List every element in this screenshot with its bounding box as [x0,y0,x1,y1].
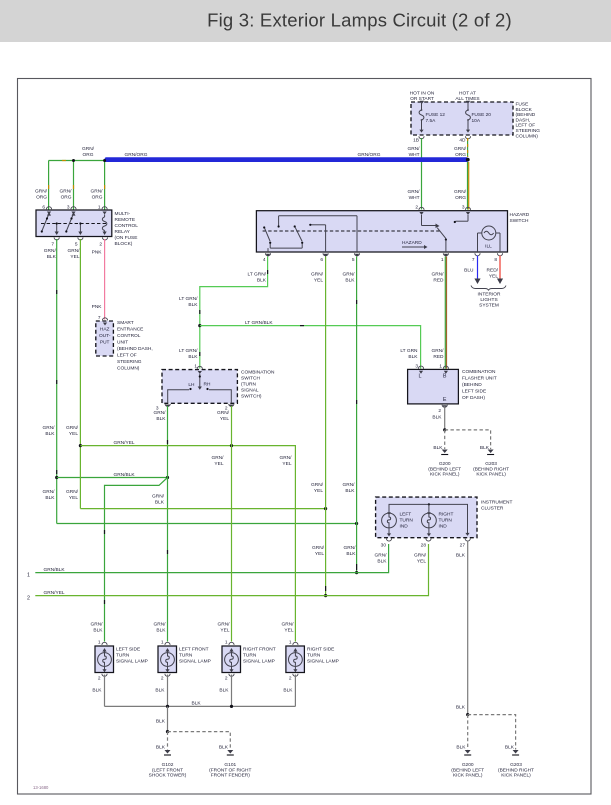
wire GRN/BLK relay pin 7 down [44,239,57,524]
wire GRN/YEL strap to hazard pin 6 column [80,508,325,510]
svg-text:RELAY: RELAY [115,229,131,235]
label GRN/BLK left front lamp feed [154,622,167,634]
svg-text:GRN/YEL: GRN/YEL [44,590,65,596]
lamp LEFT FRONT TURN SIGNAL LAMP [158,640,211,682]
svg-text:BLOCK: BLOCK [516,107,533,113]
svg-text:GRN/: GRN/ [432,272,445,278]
node HOT IN ON OR START [410,91,435,104]
svg-text:BLK: BLK [345,488,355,494]
svg-text:GRN/: GRN/ [454,146,467,152]
instrument cluster internal rail [389,503,470,536]
svg-text:KICK PANEL): KICK PANEL) [476,472,506,478]
hazard switch pin 3 [462,205,471,216]
hazard switch box [256,211,529,252]
fuse FUSE 20 10A [466,103,492,133]
svg-text:SIGNAL LAMP: SIGNAL LAMP [307,658,339,664]
svg-text:GRN/: GRN/ [154,410,167,416]
svg-text:WHT: WHT [409,152,420,158]
relay pin 1 [98,205,107,215]
wire GRN/BLK strap to hazard pin 5 column [57,523,357,525]
hazard switch pin 4 [263,253,271,263]
junction LT GRN/BLK [198,324,201,327]
wire GRN/ORG bus junction to hazard switch pin 3 [454,162,469,210]
junction GRN/YEL at relay column [79,444,82,447]
wire BLK dashed to ground G200 (upper) [433,430,444,451]
junction BLK flasher ground split [443,428,446,431]
svg-text:FUSE 12: FUSE 12 [426,112,446,118]
junction GRN/BLK rail 1 [355,571,358,574]
svg-text:BLK: BLK [377,559,387,565]
junction BLK lamp ground split [166,730,169,733]
svg-text:STEERING: STEERING [117,359,142,365]
svg-text:YEL: YEL [282,461,291,467]
relay pin 2 [99,237,107,247]
svg-text:GRN/: GRN/ [66,489,79,495]
svg-text:HAZARD: HAZARD [510,212,530,218]
svg-text:ORG: ORG [61,195,72,201]
svg-text:MULTI-: MULTI- [115,211,131,217]
svg-text:GRN/: GRN/ [454,189,467,195]
combination flasher unit (behind left side of dash) [408,369,497,404]
junction GRN/YEL at hazard pin 6 column [324,507,327,510]
wire LT GRN/BLK hazard pin 4 to combination switch pin 1 [179,257,268,369]
svg-text:ORG: ORG [455,152,466,158]
svg-text:(BEHIND LEFT: (BEHIND LEFT [428,466,461,472]
svg-text:2: 2 [289,676,292,682]
svg-text:5: 5 [352,257,355,263]
junction BLK cluster ground split [466,713,469,716]
svg-text:7: 7 [472,257,475,263]
lamp LEFT SIDE TURN SIGNAL LAMP [95,640,148,682]
wire GRN/YEL rail 2 to instrument cluster pin 28 [27,544,429,602]
svg-text:Fig 3: Exterior Lamps Circuit: Fig 3: Exterior Lamps Circuit (2 of 2) [207,10,512,31]
svg-text:INSTRUMENT: INSTRUMENT [481,500,513,506]
svg-text:UNIT: UNIT [117,340,128,346]
svg-text:1: 1 [98,640,101,646]
hazard switch pin 1 [441,253,449,263]
wire GRN/YEL combination switch pin 2 to right front lamp [212,406,232,642]
svg-text:ORG: ORG [92,195,103,201]
svg-text:ILL: ILL [485,244,492,250]
svg-text:PNK: PNK [92,250,103,256]
svg-text:SIGNAL LAMP: SIGNAL LAMP [179,658,211,664]
svg-text:4: 4 [263,257,266,263]
svg-text:SYSTEM: SYSTEM [479,303,499,309]
svg-text:YEL: YEL [314,278,323,284]
wire GRN/ORG power bus (thick) [105,152,470,162]
svg-text:GRN/ORG: GRN/ORG [358,152,381,158]
cluster pin 27 [460,539,471,549]
svg-text:5: 5 [75,242,78,248]
wire BLK dashed to ground G203 (upper) [445,430,491,451]
svg-text:(BEHIND LEFT: (BEHIND LEFT [451,767,484,773]
svg-text:HOT AT: HOT AT [459,91,476,97]
svg-text:BLK: BLK [45,495,55,501]
svg-text:1: 1 [225,640,228,646]
svg-text:GRN/: GRN/ [375,553,388,559]
wire BLK left side lamp to ground bus [92,675,104,707]
relay pin 3 [67,205,76,215]
combination switch pin 2 [225,404,234,412]
svg-text:BLK: BLK [155,500,165,506]
svg-text:GRN/: GRN/ [91,189,104,195]
hazard switch pin 2 [415,205,424,216]
svg-text:GRN/: GRN/ [91,622,104,628]
svg-text:1: 1 [439,364,442,370]
svg-text:2: 2 [438,408,441,414]
svg-text:GRN/: GRN/ [282,622,295,628]
lamp RIGHT SIDE TURN SIGNAL LAMP [286,640,339,682]
junction GRN/YEL at combo pin 2 column [230,444,233,447]
label GRN/YEL right side lamp feed [282,622,295,634]
svg-text:(BEHIND RIGHT: (BEHIND RIGHT [473,466,509,472]
svg-text:SIGNAL LAMP: SIGNAL LAMP [243,658,275,664]
wire BLK left front lamp to ground bus [155,675,167,707]
svg-text:GRN/: GRN/ [217,410,230,416]
svg-text:DASH,: DASH, [516,117,531,123]
lamp RIGHT FRONT TURN SIGNAL LAMP [222,640,276,682]
svg-text:ENTRANCE: ENTRANCE [117,327,143,333]
wire BLK dashed to ground G102 [156,732,168,751]
svg-text:(ON FUSE: (ON FUSE [115,235,138,241]
svg-text:4D: 4D [459,138,466,144]
ground G200 (behind left kick panel) lower [451,750,484,779]
svg-text:YEL: YEL [315,551,324,557]
label GRN/YEL right front lamp feed [218,622,231,634]
svg-text:(BEHIND: (BEHIND [516,112,536,118]
svg-text:B: B [443,374,447,380]
junction GRN/BLK at relay column [55,476,58,479]
svg-text:2: 2 [161,676,164,682]
instrument cluster box [376,497,513,538]
svg-text:GRN/: GRN/ [218,622,231,628]
svg-text:GRN/: GRN/ [43,489,56,495]
relay MULTI-REMOTE CONTROL RELAY (on fuse block) [36,210,138,247]
label GRN/BLK left side lamp feed [91,622,104,634]
svg-text:KICK PANEL): KICK PANEL) [453,773,483,779]
svg-text:10A: 10A [472,118,481,124]
hazard switch internal wiring left [263,216,357,252]
svg-text:BLK: BLK [155,688,165,694]
wire GRN/RED hazard pin 1 to flasher pin B [432,257,447,369]
svg-text:GRN/: GRN/ [68,248,81,254]
wire BLK flasher pin 2 to ground junction [432,406,444,430]
svg-text:CLUSTER: CLUSTER [481,506,504,512]
svg-text:RED: RED [433,354,444,360]
svg-text:GRN/: GRN/ [432,348,445,354]
wire GRN/YEL strap to right side lamp column [80,440,295,641]
svg-text:G200: G200 [462,762,474,768]
svg-text:BLK: BLK [432,415,442,421]
svg-text:6: 6 [320,257,323,263]
svg-text:BLK: BLK [433,445,443,451]
svg-text:(BEHIND RIGHT: (BEHIND RIGHT [498,767,534,773]
svg-text:BLK: BLK [45,431,55,437]
wire PNK relay pin 2 to smart entrance control unit [92,239,105,320]
svg-text:1: 1 [441,257,444,263]
svg-text:RED/: RED/ [487,268,499,274]
wire GRN/ORG fuse 20 to bus junction [454,138,468,158]
svg-text:G203: G203 [485,461,497,467]
svg-text:SWITCH: SWITCH [510,218,529,224]
svg-text:TURN: TURN [307,653,321,659]
svg-text:GRN/: GRN/ [43,425,56,431]
svg-text:TURN: TURN [243,653,257,659]
svg-text:BLOCK): BLOCK) [115,241,133,247]
svg-text:YEL: YEL [69,431,78,437]
svg-text:BLK: BLK [192,701,202,707]
wire GRN/BLK branch to left side lamp [105,478,168,642]
svg-text:GRN/: GRN/ [152,494,165,500]
svg-text:3: 3 [415,364,418,370]
svg-text:INTERIOR: INTERIOR [478,292,501,298]
relay pin 6 [42,205,51,215]
svg-text:ORG: ORG [36,195,47,201]
hazard switch pin 6 [320,253,328,263]
svg-text:E: E [443,397,447,403]
svg-text:PNK: PNK [92,304,103,310]
svg-text:GRN/: GRN/ [154,622,167,628]
fuse block (behind dash, left of steering column) [411,102,540,140]
svg-text:G203: G203 [510,762,522,768]
junction GRN/BLK at hazard pin 5 column [355,522,358,525]
svg-text:HAZARD: HAZARD [402,240,422,246]
svg-text:COMBINATION: COMBINATION [462,369,496,375]
svg-text:COLUMN): COLUMN) [117,366,140,372]
svg-text:6: 6 [42,205,45,211]
junction GRN/BLK at combo pin 3 column [166,476,169,479]
svg-text:GRN/: GRN/ [82,146,95,152]
wire GRN/BLK cross strap to combination switch pin 3 column [57,472,168,478]
svg-text:BLK: BLK [346,551,356,557]
svg-text:LEFT: LEFT [400,512,412,518]
svg-text:TURN: TURN [439,518,453,524]
flasher pin 2 [438,405,447,414]
svg-text:YEL: YEL [69,495,78,501]
svg-text:GRN/: GRN/ [408,189,421,195]
svg-text:(BEHIND DASH,: (BEHIND DASH, [117,346,153,352]
svg-text:REMOTE: REMOTE [115,217,136,223]
svg-text:FUSE 20: FUSE 20 [472,112,492,118]
svg-text:BLK: BLK [156,416,166,422]
svg-text:LEFT OF: LEFT OF [516,123,536,129]
svg-text:GRN/: GRN/ [311,272,324,278]
svg-text:YEL: YEL [489,274,498,280]
wire BLK right side lamp to ground bus [283,675,295,707]
svg-text:GRN/: GRN/ [280,455,293,461]
hazard switch pin 8 [494,253,502,263]
svg-text:28: 28 [421,543,427,549]
wire BLU to interior lights system [464,256,480,285]
svg-text:WHT: WHT [409,195,420,201]
combination switch pin 1 [194,364,202,375]
wire BLK dashed to ground G200 (lower) [456,715,467,751]
svg-text:30: 30 [381,543,387,549]
svg-text:OF DASH): OF DASH) [462,395,485,401]
svg-text:IND: IND [439,524,448,530]
svg-text:2: 2 [99,242,102,248]
svg-text:COMBINATION: COMBINATION [241,370,275,376]
svg-text:GRN/BLK: GRN/BLK [44,567,66,573]
svg-text:HOT IN ON: HOT IN ON [410,91,435,97]
svg-text:BLK: BLK [47,254,57,260]
svg-text:1B: 1B [413,138,419,144]
svg-text:SHOCK TOWER): SHOCK TOWER) [149,773,187,779]
relay pin 5 [75,237,83,247]
wire BLK cluster pin 27 down [456,541,468,715]
svg-text:BLK: BLK [505,745,515,751]
combination switch internal contacts LH RH [168,374,232,403]
svg-text:LT GRN: LT GRN [400,348,418,354]
cluster pin 28 [421,539,431,549]
svg-text:1: 1 [98,205,101,211]
svg-text:RED: RED [433,278,444,284]
svg-text:7.5A: 7.5A [426,118,437,124]
svg-text:BLK: BLK [93,628,103,634]
svg-text:PUT: PUT [100,340,110,346]
ground G101 (front of right front fender) [209,750,251,779]
svg-text:GRN/: GRN/ [343,272,356,278]
svg-text:LT GRN/BLK: LT GRN/BLK [245,320,273,326]
relay switch contacts [41,212,83,235]
svg-text:TURN: TURN [179,653,193,659]
svg-text:BLK: BLK [92,688,102,694]
wire GRN/BLK combination switch pin 3 to left front lamp [154,406,168,642]
hazard switch pin 7 [472,253,480,263]
pin 1B [413,136,424,143]
wire BLK lamp ground bus [105,701,296,709]
combination switch pin 3 [156,404,170,412]
svg-text:LEFT SIDE: LEFT SIDE [116,647,140,653]
svg-text:1: 1 [161,640,164,646]
svg-text:BLK: BLK [257,278,267,284]
svg-text:COLUMN): COLUMN) [516,133,539,139]
wire RED/YEL to interior lights system [487,256,504,285]
svg-text:LIGHTS: LIGHTS [480,297,497,303]
svg-text:(TURN: (TURN [241,382,256,388]
svg-text:GRN/: GRN/ [344,545,357,551]
wire BLK right front lamp to ground bus [219,675,231,707]
svg-text:IND: IND [400,524,409,530]
svg-text:G102: G102 [162,762,174,768]
lamp ILL in hazard switch [478,226,501,252]
svg-text:LT GRN/: LT GRN/ [179,296,198,302]
svg-text:YEL: YEL [70,254,79,260]
svg-text:FRONT FENDER): FRONT FENDER) [211,773,250,779]
svg-text:GRN/: GRN/ [414,553,427,559]
svg-text:BLK: BLK [456,705,466,711]
svg-text:SWITCH): SWITCH) [241,394,262,400]
svg-text:BLK: BLK [188,354,198,360]
wire GRN/YEL hazard pin 6 down to rail 2 [311,257,326,596]
svg-text:3: 3 [67,205,70,211]
svg-text:GRN/: GRN/ [66,425,79,431]
svg-text:YEL: YEL [417,559,426,565]
svg-text:FLASHER UNIT: FLASHER UNIT [462,376,497,382]
hazard switch internal wiring right [422,215,469,252]
svg-text:KICK PANEL): KICK PANEL) [501,773,531,779]
svg-text:2: 2 [225,676,228,682]
svg-text:LEFT OF: LEFT OF [117,353,137,359]
wire GRN/WHT fuse 12 to hazard switch pin 2 [408,138,422,210]
svg-text:TURN: TURN [400,518,414,524]
svg-text:RIGHT: RIGHT [439,512,454,518]
hazard switch pin 5 [352,253,360,263]
svg-text:GRN/: GRN/ [44,248,57,254]
wire BLK dashed to ground G203 (lower) [468,715,516,751]
svg-text:8: 8 [494,257,497,263]
svg-text:2: 2 [27,596,30,602]
wire GRN/BLK rail 1 to instrument cluster pin 30 [27,544,389,579]
node INTERIOR LIGHTS SYSTEM [471,286,506,309]
svg-text:ORG: ORG [83,152,94,158]
svg-text:GRN/: GRN/ [311,482,324,488]
wire BLK ground bus to ground junction [156,706,168,731]
ground G102 (left front shock tower) [149,750,187,779]
title bar [0,0,611,42]
svg-text:RIGHT FRONT: RIGHT FRONT [243,647,276,653]
ground G200 (behind left kick panel) upper [428,450,461,478]
svg-text:7: 7 [51,242,54,248]
svg-text:1: 1 [289,640,292,646]
svg-text:3: 3 [462,205,465,211]
svg-text:YEL: YEL [220,628,229,634]
svg-text:7: 7 [98,315,101,321]
svg-text:1: 1 [27,573,30,579]
ground G203 (behind right kick panel) upper [473,450,509,478]
svg-text:BLK: BLK [345,278,355,284]
svg-text:GRN/: GRN/ [343,482,356,488]
svg-text:KICK PANEL): KICK PANEL) [430,472,460,478]
svg-text:(LEFT FRONT: (LEFT FRONT [152,767,183,773]
svg-text:G101: G101 [224,762,236,768]
svg-text:GRN/: GRN/ [408,146,421,152]
svg-text:GRN/YEL: GRN/YEL [114,440,135,446]
svg-text:BLK: BLK [456,553,466,559]
ground G203 (behind right kick panel) lower [498,750,534,779]
pin 4D [459,136,470,143]
wire LT GRN/BLK branch to combination flasher unit pin 3 [200,320,421,368]
svg-text:BLK: BLK [156,628,166,634]
svg-text:BLK: BLK [188,302,198,308]
svg-text:LH: LH [188,382,195,388]
svg-text:SWITCH: SWITCH [241,376,260,382]
wire BLK dashed to ground G101 [168,732,231,751]
svg-text:2: 2 [415,205,418,211]
svg-text:LEFT FRONT: LEFT FRONT [179,647,209,653]
lamp LEFT TURN IND [382,512,414,537]
svg-text:GRN/BLK: GRN/BLK [114,472,136,478]
svg-text:TURN: TURN [116,653,130,659]
svg-text:BLK: BLK [408,354,418,360]
lamp RIGHT TURN IND [422,512,454,537]
svg-text:BLK: BLK [219,745,229,751]
svg-text:GRN/ORG: GRN/ORG [125,152,148,158]
svg-text:STEERING: STEERING [516,128,541,134]
fuse FUSE 12 7.5A [419,103,445,133]
flasher pin 1 [439,364,448,374]
flasher pin 3 [415,364,423,374]
svg-text:CONTROL: CONTROL [115,223,139,229]
svg-text:BLU: BLU [464,268,474,274]
svg-text:YEL: YEL [314,488,323,494]
junction GRN/YEL rail 2 [324,594,327,597]
svg-text:ORG: ORG [455,195,466,201]
svg-text:BLK: BLK [219,688,229,694]
svg-text:GRN/: GRN/ [60,189,73,195]
svg-text:LEFT SIDE: LEFT SIDE [462,389,486,395]
junction relay feeder [72,159,106,162]
